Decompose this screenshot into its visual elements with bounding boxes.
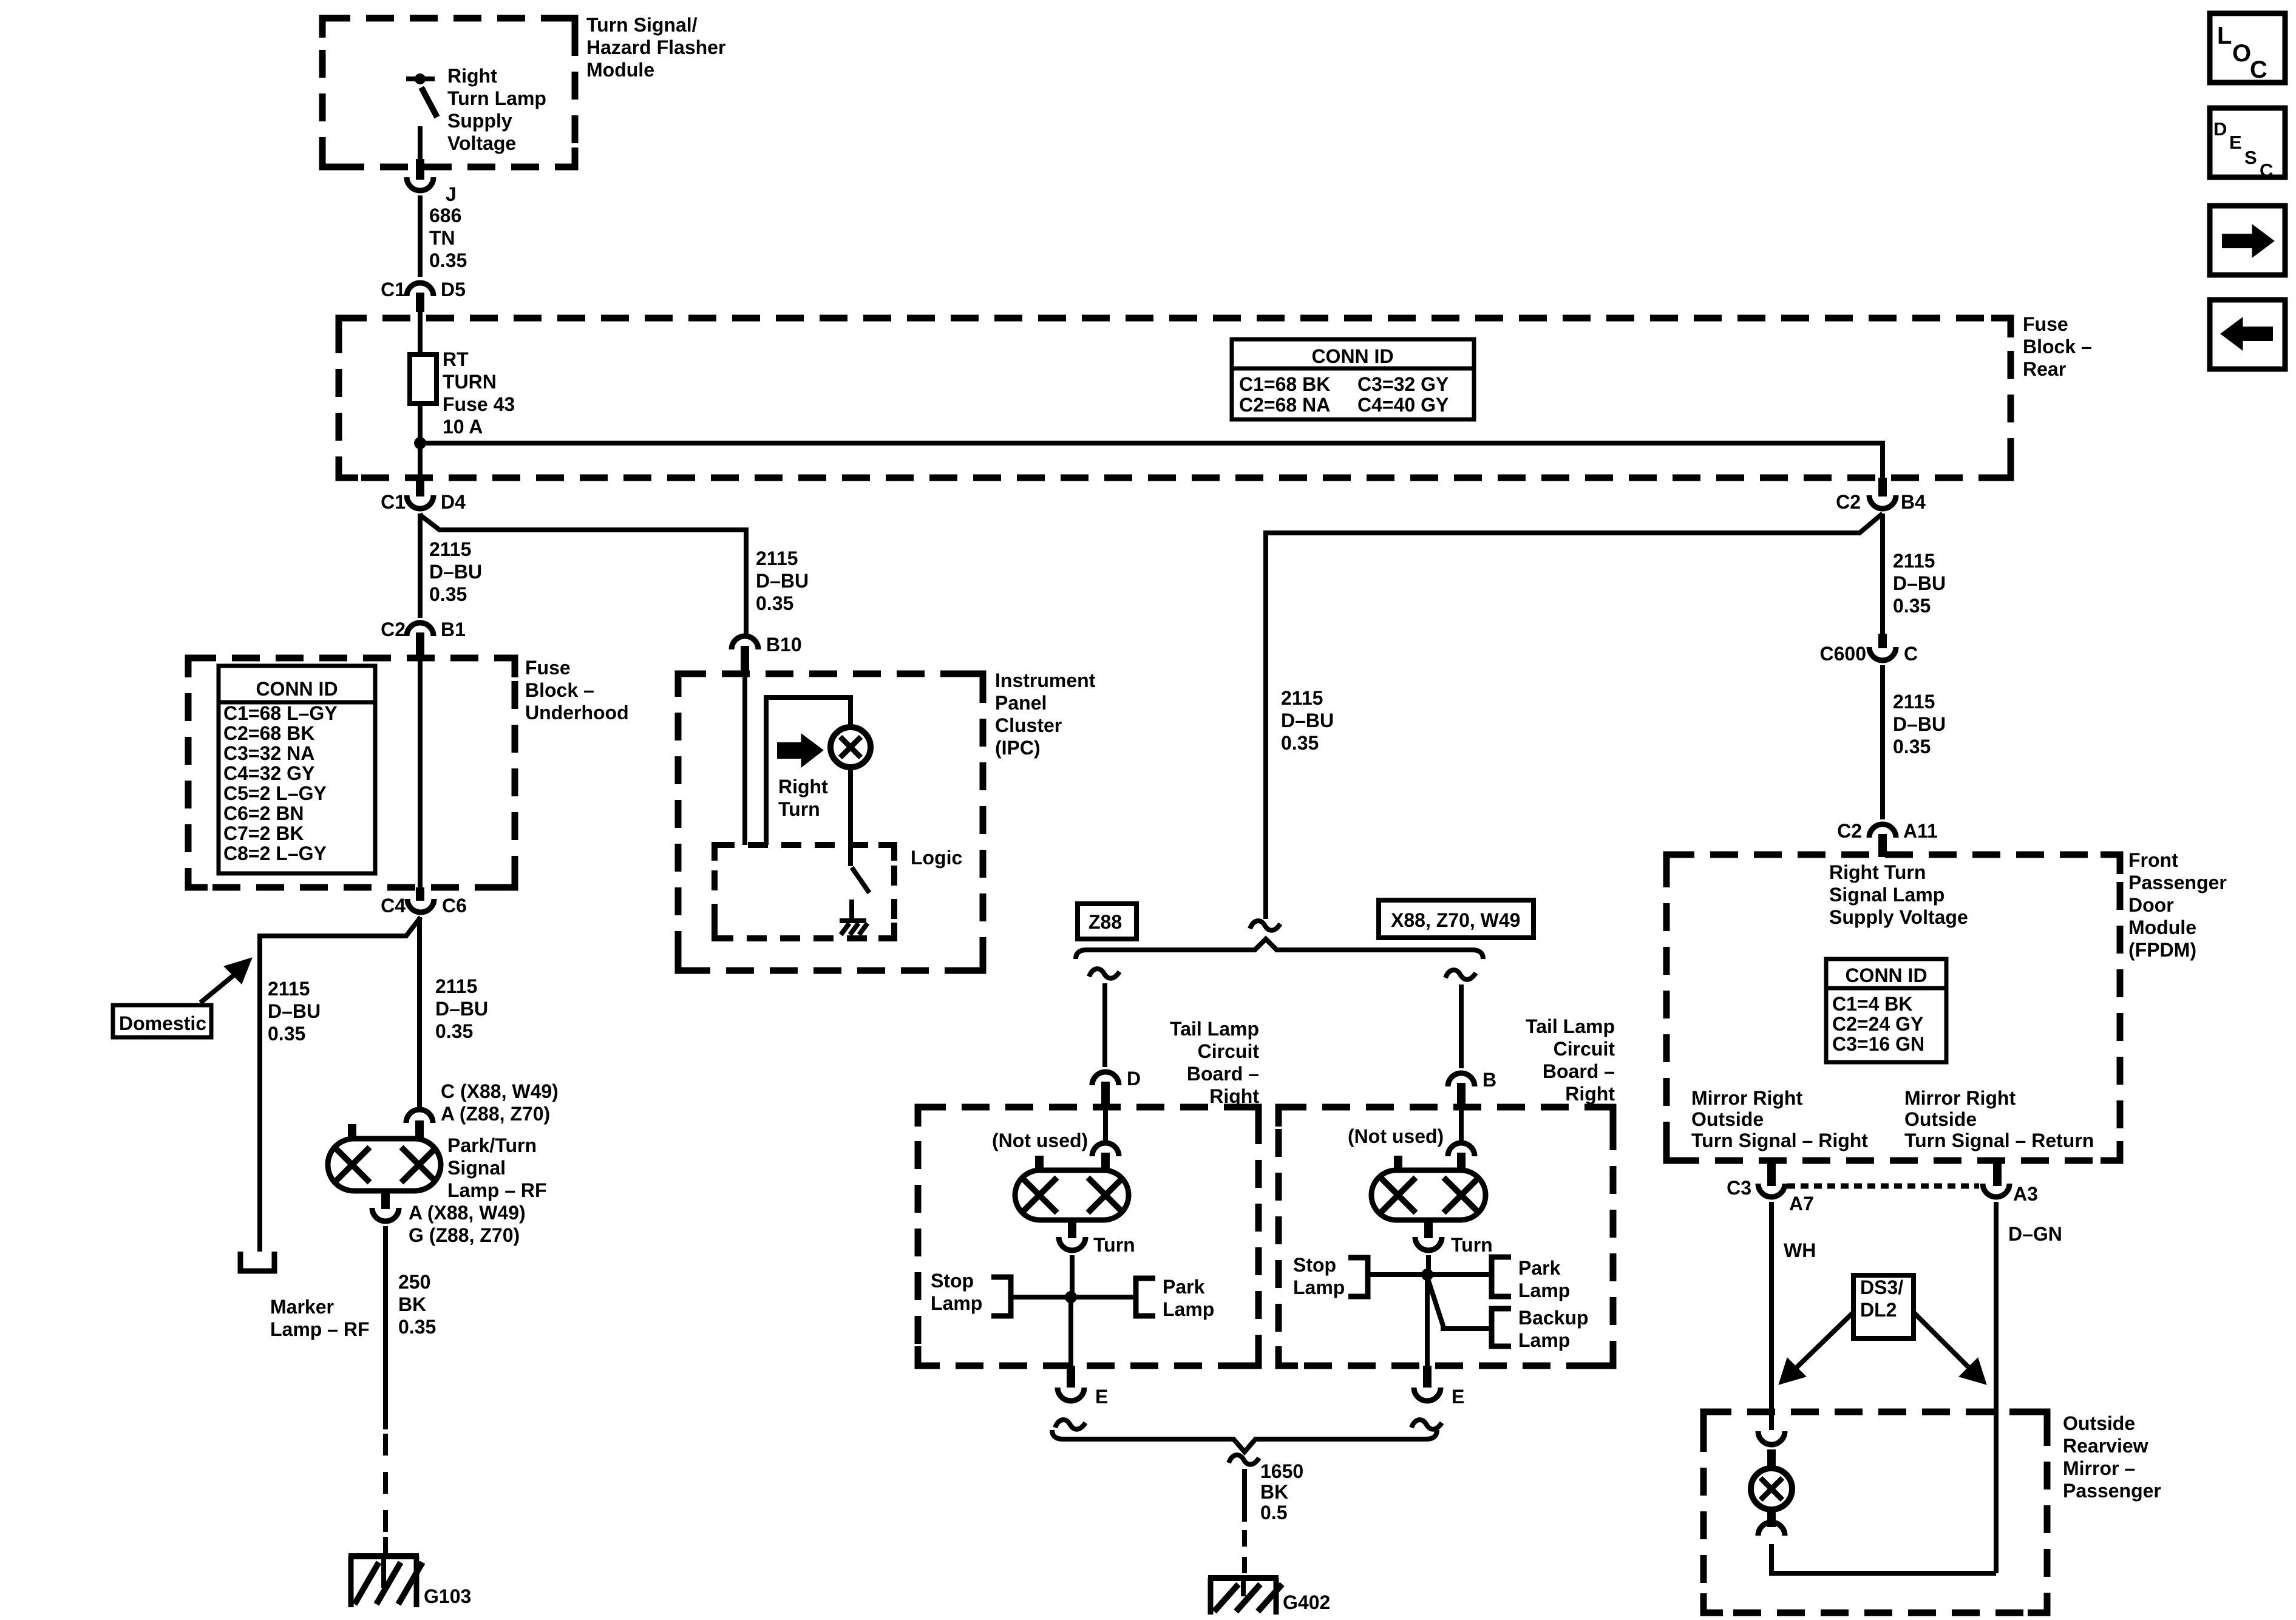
- svg-text:Hazard Flasher: Hazard Flasher: [586, 36, 725, 58]
- svg-text:C1: C1: [381, 491, 406, 513]
- option box: Z88: [1078, 904, 1136, 939]
- label: Instrument Panel Cluster (IPC): [995, 669, 1096, 759]
- label: 2115 D-BU 0.35 (middle): [1281, 687, 1334, 754]
- label: 2115 D-BU 0.35 (IPC branch wire): [756, 547, 809, 614]
- label: Right Turn (IPC): [778, 776, 828, 820]
- svg-text:L: L: [2217, 22, 2232, 49]
- lamp housing: Park/Turn Signal Lamp - RF: [328, 1124, 441, 1209]
- terminal bracket: Stop Lamp (2): [1348, 1258, 1368, 1296]
- label: pin A/G of park-turn lamp: [409, 1202, 526, 1246]
- module box: Tail Lamp Circuit Board (2): [1279, 1107, 1613, 1366]
- arrow to WH wire: [1779, 1312, 1853, 1384]
- svg-text:Right Turn: Right Turn: [1829, 861, 1926, 883]
- splice crimp below E (1): [1055, 1420, 1085, 1429]
- svg-text:0.35: 0.35: [429, 583, 467, 605]
- svg-text:0.35: 0.35: [1893, 595, 1931, 617]
- wire split to IPC branch: [420, 513, 746, 636]
- wire: bus inside Fuse Block Rear to right side: [420, 443, 1883, 478]
- svg-text:Turn: Turn: [1093, 1234, 1135, 1256]
- module box: Fuse Block Underhood: [188, 658, 515, 887]
- svg-text:C3: C3: [1727, 1177, 1751, 1199]
- module box: Turn Signal / Hazard Flasher Module: [322, 18, 575, 167]
- label: Backup Lamp: [1518, 1307, 1589, 1351]
- svg-text:D–BU: D–BU: [268, 1000, 321, 1022]
- icon box: previous arrow: [2210, 300, 2285, 369]
- svg-text:Passenger: Passenger: [2128, 872, 2227, 893]
- svg-text:Mirror Right: Mirror Right: [1904, 1087, 2016, 1109]
- junction node (2): [1421, 1269, 1433, 1281]
- connector B10 (into IPC): [732, 634, 802, 675]
- svg-text:2115: 2115: [1893, 550, 1935, 572]
- svg-text:0.35: 0.35: [1281, 732, 1319, 754]
- wire lamp to logic: [848, 767, 853, 866]
- svg-text:Block –: Block –: [525, 679, 594, 701]
- svg-text:C2=68 NA: C2=68 NA: [1239, 394, 1330, 416]
- connector A/G below lamp: [372, 1208, 399, 1221]
- svg-text:Lamp – RF: Lamp – RF: [447, 1179, 547, 1201]
- right-turn indicator arrow (IPC): [777, 734, 823, 767]
- connector A3 (FPDM to mirror return): [1983, 1161, 2038, 1205]
- svg-text:Park/Turn: Park/Turn: [447, 1134, 537, 1156]
- svg-text:D4: D4: [441, 491, 466, 513]
- svg-text:1650: 1650: [1260, 1460, 1303, 1482]
- svg-text:E: E: [1095, 1386, 1108, 1408]
- wire 2115 D-BU 0.35 (right lower): [1880, 665, 1885, 819]
- svg-text:C3=16 GN: C3=16 GN: [1832, 1033, 1924, 1055]
- label: wire 686 TN 0.35: [429, 205, 467, 271]
- ground symbol inside IPC logic: [840, 900, 868, 935]
- svg-text:Right: Right: [447, 65, 497, 87]
- svg-text:Turn Signal – Right: Turn Signal – Right: [1691, 1130, 1868, 1151]
- svg-text:(Not used): (Not used): [992, 1130, 1088, 1151]
- svg-text:Park: Park: [1163, 1276, 1205, 1298]
- svg-text:Outside: Outside: [2063, 1412, 2135, 1434]
- wire 2115 D-BU 0.35 (to tail lamp boards): [1266, 513, 1883, 919]
- svg-text:Tail Lamp: Tail Lamp: [1526, 1015, 1615, 1037]
- svg-text:B: B: [1483, 1069, 1496, 1091]
- svg-text:(IPC): (IPC): [995, 737, 1041, 759]
- svg-text:10 A: 10 A: [443, 416, 483, 438]
- label: Marker Lamp - RF: [270, 1296, 370, 1340]
- svg-text:D–BU: D–BU: [1893, 713, 1946, 735]
- svg-text:D–BU: D–BU: [1281, 710, 1334, 731]
- svg-text:DL2: DL2: [1860, 1299, 1897, 1321]
- svg-text:Stop: Stop: [1293, 1254, 1336, 1276]
- switch: Right Turn Lamp Supply Voltage (inside flasher module): [406, 73, 437, 160]
- wire from fuse to junction: [418, 404, 423, 443]
- svg-text:Front: Front: [2128, 849, 2178, 871]
- ground G402: [1208, 1578, 1330, 1615]
- svg-text:Module: Module: [586, 59, 654, 81]
- svg-text:O: O: [2232, 40, 2251, 67]
- svg-text:DS3/: DS3/: [1860, 1276, 1903, 1298]
- svg-text:A (Z88, Z70): A (Z88, Z70): [441, 1103, 550, 1125]
- svg-text:0.35: 0.35: [398, 1316, 436, 1338]
- connector C600/C: [1820, 634, 1918, 665]
- svg-text:Turn: Turn: [1451, 1234, 1493, 1256]
- svg-text:Board –: Board –: [1187, 1063, 1259, 1085]
- connector C2/A11 (into FPDM): [1837, 820, 1938, 857]
- svg-text:Z88: Z88: [1089, 911, 1122, 933]
- module box: Instrument Panel Cluster (IPC): [678, 674, 983, 971]
- svg-text:2115: 2115: [756, 547, 798, 569]
- wire into fuse: [418, 312, 423, 354]
- connector Turn (1): [1059, 1234, 1135, 1256]
- wire 686 TN 0.35: [418, 195, 423, 277]
- label: (Not used) (1): [992, 1130, 1088, 1151]
- junction node (1): [1065, 1291, 1077, 1303]
- svg-text:2115: 2115: [1281, 687, 1323, 709]
- svg-text:Supply: Supply: [447, 110, 512, 132]
- connector B (tail lamp circuit board right): [1448, 1069, 1496, 1108]
- svg-text:C2: C2: [1837, 820, 1862, 842]
- svg-text:0.35: 0.35: [268, 1023, 305, 1045]
- svg-text:C1=68 L–GY: C1=68 L–GY: [223, 702, 338, 724]
- fuse RT TURN Fuse 43 10 A: [410, 354, 436, 404]
- svg-text:D–BU: D–BU: [429, 561, 482, 583]
- wire 2115 D-BU 0.35 (to park/turn lamp): [417, 917, 422, 1110]
- label: 2115 D-BU 0.35 (main): [435, 975, 488, 1042]
- svg-text:B10: B10: [766, 634, 802, 656]
- connector D (tail lamp circuit board left): [1092, 1068, 1141, 1108]
- wire D-GN: [1994, 1202, 1999, 1573]
- arrow from Domestic callout: [200, 958, 252, 1003]
- svg-text:Board –: Board –: [1543, 1060, 1615, 1082]
- svg-text:Underhood: Underhood: [525, 702, 629, 724]
- wire junction to E (2): [1425, 1275, 1430, 1366]
- label: Stop Lamp (1): [931, 1270, 982, 1314]
- svg-text:BK: BK: [1260, 1481, 1288, 1503]
- wire junction to E (1): [1068, 1297, 1073, 1366]
- svg-text:C6: C6: [442, 895, 467, 917]
- mirror turn signal lamp: [1751, 1468, 1792, 1527]
- svg-text:(Not used): (Not used): [1348, 1125, 1444, 1147]
- svg-text:C4=40 GY: C4=40 GY: [1357, 394, 1449, 416]
- label: D-GN: [2008, 1223, 2062, 1245]
- svg-text:Lamp: Lamp: [1518, 1329, 1570, 1351]
- svg-text:Lamp: Lamp: [1293, 1276, 1345, 1298]
- svg-text:TURN: TURN: [443, 371, 497, 393]
- svg-text:RT: RT: [443, 348, 469, 370]
- label: Mirror Right Outside Turn Signal - Return: [1904, 1087, 2094, 1151]
- svg-text:D: D: [1127, 1068, 1141, 1090]
- svg-text:(FPDM): (FPDM): [2128, 939, 2196, 961]
- svg-text:Fuse 43: Fuse 43: [443, 393, 515, 415]
- wire to connector B: [1459, 985, 1464, 1068]
- svg-text:Module: Module: [2128, 917, 2196, 938]
- svg-text:Lamp: Lamp: [1163, 1298, 1214, 1320]
- svg-text:Fuse: Fuse: [2023, 313, 2068, 335]
- svg-text:Rearview: Rearview: [2063, 1435, 2148, 1457]
- splice crimp at 1650 BK: [1229, 1455, 1259, 1465]
- label: Logic: [911, 847, 962, 869]
- connector at bulb pin (1): [1092, 1143, 1119, 1171]
- svg-text:A7: A7: [1789, 1193, 1814, 1215]
- svg-text:Cluster: Cluster: [995, 714, 1062, 736]
- svg-text:C2: C2: [1836, 491, 1861, 513]
- svg-text:C1=4 BK: C1=4 BK: [1832, 993, 1913, 1015]
- connector C/A at Park/Turn Signal Lamp: [406, 1110, 433, 1140]
- label: 2115 D-BU 0.35 (left wire): [429, 538, 482, 605]
- dotted connector face line: [1787, 1184, 1979, 1189]
- wire loop to indicator lamp: [766, 697, 851, 845]
- label: 250 BK 0.35: [398, 1271, 436, 1338]
- svg-text:Voltage: Voltage: [447, 132, 516, 154]
- terminal bracket: Backup Lamp: [1492, 1309, 1511, 1346]
- svg-text:C: C: [2250, 56, 2267, 83]
- svg-text:Lamp: Lamp: [1518, 1279, 1570, 1301]
- svg-text:CONN ID: CONN ID: [1845, 964, 1927, 986]
- label: Mirror Right Outside Turn Signal - Right: [1691, 1087, 1868, 1151]
- svg-text:Supply Voltage: Supply Voltage: [1829, 906, 1968, 928]
- wire to backup lamp: [1427, 1277, 1492, 1329]
- wire WH: [1769, 1202, 1774, 1430]
- svg-text:Signal Lamp: Signal Lamp: [1829, 884, 1944, 906]
- wire B10 into logic: [742, 675, 747, 845]
- svg-text:C3=32 GY: C3=32 GY: [1357, 373, 1449, 395]
- svg-text:Circuit: Circuit: [1554, 1038, 1615, 1060]
- svg-text:Mirror –: Mirror –: [2063, 1457, 2135, 1479]
- label: WH: [1784, 1239, 1816, 1261]
- svg-text:Block –: Block –: [2023, 336, 2092, 358]
- svg-text:C: C: [1904, 643, 1918, 665]
- svg-text:E: E: [2229, 132, 2242, 153]
- svg-text:0.5: 0.5: [1260, 1502, 1287, 1523]
- svg-text:686: 686: [429, 205, 461, 226]
- connector at bulb pin (2): [1448, 1143, 1475, 1171]
- svg-text:0.35: 0.35: [435, 1020, 473, 1042]
- label: Fuse Block - Rear: [2023, 313, 2092, 380]
- label: Right Turn Lamp Supply Voltage: [447, 65, 546, 154]
- svg-text:Panel: Panel: [995, 692, 1047, 714]
- svg-text:Tail Lamp: Tail Lamp: [1170, 1018, 1259, 1040]
- callout box: DS3/DL2: [1853, 1275, 1914, 1338]
- label: Tail Lamp Circuit Board - Right (2): [1526, 1015, 1615, 1105]
- svg-text:Right: Right: [1209, 1085, 1259, 1107]
- svg-text:WH: WH: [1784, 1239, 1816, 1261]
- wire from junction down: [418, 443, 423, 478]
- svg-text:2115: 2115: [429, 538, 471, 560]
- connector out of mirror lamp: [1758, 1522, 1785, 1536]
- wire stop-park crossbar (1): [1011, 1295, 1135, 1300]
- wire stop-park crossbar (2): [1368, 1272, 1492, 1277]
- svg-text:A (X88, W49): A (X88, W49): [409, 1202, 526, 1224]
- svg-text:C3=32 NA: C3=32 NA: [223, 742, 314, 764]
- svg-text:Right: Right: [1565, 1083, 1615, 1105]
- svg-text:Park: Park: [1518, 1257, 1561, 1279]
- svg-text:Instrument: Instrument: [995, 669, 1096, 691]
- svg-text:C1: C1: [381, 279, 406, 300]
- icon box: DESC: [2210, 108, 2285, 181]
- svg-text:TN: TN: [429, 227, 455, 249]
- ground G103: [348, 1556, 471, 1607]
- label: Park Lamp (1): [1163, 1276, 1214, 1320]
- svg-text:Passenger: Passenger: [2063, 1480, 2161, 1502]
- label: 1650 BK 0.5: [1260, 1460, 1303, 1523]
- svg-text:CONN ID: CONN ID: [1311, 345, 1393, 367]
- label: (Not used) (2): [1348, 1125, 1444, 1147]
- connector E (2): [1414, 1366, 1464, 1408]
- svg-text:250: 250: [398, 1271, 430, 1293]
- svg-text:C2: C2: [381, 619, 406, 640]
- svg-text:D: D: [2213, 118, 2227, 140]
- wire D to bulb pin (1): [1103, 1108, 1108, 1140]
- wire 2115 D-BU 0.35 (left): [418, 513, 423, 618]
- svg-text:E: E: [1452, 1386, 1464, 1408]
- svg-text:Fuse: Fuse: [525, 657, 571, 679]
- svg-text:C5=2 L–GY: C5=2 L–GY: [223, 782, 327, 804]
- connector C1/D5 (into Fuse Block Rear): [381, 279, 466, 312]
- splice crimp above brace: [1250, 921, 1280, 930]
- svg-text:BK: BK: [398, 1293, 426, 1315]
- svg-text:G402: G402: [1283, 1591, 1330, 1613]
- svg-text:Domestic: Domestic: [119, 1012, 206, 1034]
- svg-text:D–BU: D–BU: [435, 998, 488, 1020]
- label: Fuse Block - Underhood: [525, 657, 629, 724]
- svg-text:A11: A11: [1903, 820, 1938, 842]
- bulb housing (tail lamp 1): [1015, 1156, 1129, 1238]
- wire 250 BK 0.35: [383, 1226, 388, 1556]
- svg-text:A3: A3: [2013, 1183, 2038, 1205]
- svg-text:C (X88, W49): C (X88, W49): [441, 1080, 559, 1102]
- wire through underhood block: [418, 659, 423, 887]
- svg-text:0.35: 0.35: [756, 592, 793, 614]
- svg-text:Stop: Stop: [931, 1270, 974, 1292]
- wire B to bulb pin (2): [1459, 1108, 1464, 1140]
- svg-text:B1: B1: [441, 619, 466, 640]
- svg-text:Turn Lamp: Turn Lamp: [447, 87, 546, 109]
- splice crimp below E (2): [1411, 1420, 1442, 1429]
- svg-text:C8=2 L–GY: C8=2 L–GY: [223, 842, 327, 864]
- label: Right Turn Signal Lamp Supply Voltage: [1829, 861, 1968, 928]
- svg-text:2115: 2115: [435, 975, 477, 997]
- svg-text:C600: C600: [1820, 643, 1867, 665]
- wire turn to junction (2): [1426, 1255, 1431, 1275]
- table CONN ID (Fuse Block Rear): [1232, 339, 1474, 419]
- switch inside IPC logic: [852, 867, 869, 893]
- svg-text:S: S: [2244, 147, 2257, 168]
- svg-text:Rear: Rear: [2023, 358, 2066, 380]
- connector Turn (2): [1415, 1234, 1493, 1256]
- wire turn to junction (1): [1070, 1255, 1075, 1297]
- icon box: LOC: [2210, 13, 2285, 83]
- svg-text:C2=24 GY: C2=24 GY: [1832, 1013, 1923, 1035]
- callout box: Domestic: [113, 1005, 211, 1037]
- wire mirror return: [1771, 1544, 1996, 1573]
- arrow to D-GN wire: [1914, 1312, 1986, 1384]
- splice crimp (right drop): [1445, 970, 1476, 980]
- svg-text:0.35: 0.35: [1893, 736, 1931, 757]
- label: RT TURN Fuse 43 10 A: [443, 348, 515, 438]
- svg-text:2115: 2115: [268, 978, 310, 1000]
- svg-text:Logic: Logic: [911, 847, 962, 869]
- connector into mirror lamp: [1758, 1431, 1785, 1470]
- connector C2/B4 (Fuse Block Rear right output): [1836, 478, 1926, 513]
- label: Park Lamp (2): [1518, 1257, 1570, 1301]
- table CONN ID (FPDM): [1826, 959, 1946, 1062]
- svg-text:D–BU: D–BU: [1893, 572, 1946, 594]
- connector C2/B1 (into Fuse Block Underhood): [381, 619, 466, 659]
- label: Stop Lamp (2): [1293, 1254, 1345, 1298]
- svg-text:C: C: [2260, 160, 2273, 181]
- svg-text:Signal: Signal: [447, 1157, 506, 1179]
- label: Outside Rearview Mirror - Passenger: [2063, 1412, 2161, 1502]
- svg-text:X88, Z70, W49: X88, Z70, W49: [1391, 909, 1520, 931]
- terminal bracket: Park Lamp (2): [1492, 1257, 1511, 1296]
- svg-text:Turn Signal – Return: Turn Signal – Return: [1904, 1130, 2094, 1151]
- wire 1650 BK 0.5: [1242, 1469, 1247, 1573]
- splice crimp (left drop): [1089, 969, 1119, 978]
- svg-text:Circuit: Circuit: [1198, 1040, 1260, 1062]
- svg-text:D5: D5: [441, 279, 466, 300]
- svg-text:Outside: Outside: [1691, 1108, 1764, 1130]
- svg-text:Outside: Outside: [1904, 1108, 1977, 1130]
- svg-text:2115: 2115: [1893, 691, 1935, 713]
- bulb housing (tail lamp 2): [1371, 1156, 1486, 1238]
- svg-text:Turn Signal/: Turn Signal/: [586, 14, 698, 36]
- svg-text:C6=2 BN: C6=2 BN: [223, 802, 304, 824]
- connector C3/A7 (FPDM to mirror): [1727, 1161, 1814, 1215]
- svg-text:C4=32 GY: C4=32 GY: [223, 762, 314, 784]
- junction node (fuse output): [414, 437, 426, 449]
- svg-text:Lamp – RF: Lamp – RF: [270, 1318, 370, 1340]
- svg-text:C2=68 BK: C2=68 BK: [223, 722, 314, 744]
- svg-text:Lamp: Lamp: [931, 1292, 982, 1314]
- wire to connector D: [1102, 983, 1107, 1067]
- label: Front Passenger Door Module (FPDM): [2128, 849, 2227, 961]
- terminal bracket: Park Lamp (1): [1136, 1278, 1155, 1316]
- svg-text:D–BU: D–BU: [756, 570, 809, 592]
- svg-text:Marker: Marker: [270, 1296, 334, 1318]
- terminal: Marker Lamp - RF: [240, 1252, 274, 1271]
- label: 2115 D-BU 0.35 (right upper): [1893, 550, 1946, 617]
- label: Turn Signal/Hazard Flasher Module: [586, 14, 725, 81]
- svg-text:CONN ID: CONN ID: [256, 678, 338, 700]
- svg-text:Right: Right: [778, 776, 828, 798]
- label: pin C/A of park-turn lamp: [441, 1080, 559, 1125]
- svg-text:C4: C4: [381, 895, 406, 917]
- svg-text:C7=2 BK: C7=2 BK: [223, 822, 304, 844]
- module box: Outside Rearview Mirror - Passenger: [1703, 1412, 2047, 1613]
- module box: Front Passenger Door Module (FPDM): [1666, 855, 2120, 1161]
- svg-text:Backup: Backup: [1518, 1307, 1589, 1329]
- module box: Tail Lamp Circuit Board (1): [918, 1107, 1258, 1366]
- svg-text:G103: G103: [424, 1585, 471, 1607]
- svg-text:Door: Door: [2128, 894, 2174, 916]
- brace over tail lamp drops: [1076, 939, 1483, 959]
- svg-text:C1=68 BK: C1=68 BK: [1239, 373, 1330, 395]
- label: Park/Turn Signal Lamp - RF: [447, 1134, 547, 1201]
- indicator lamp (IPC right turn): [830, 727, 871, 767]
- label: 2115 D-BU 0.35 (marker branch): [268, 978, 321, 1045]
- wire 2115 D-BU 0.35 (right upper): [1880, 513, 1885, 635]
- terminal bracket: Stop Lamp (1): [991, 1277, 1011, 1316]
- wire branch to Marker Lamp: [260, 917, 421, 1252]
- svg-text:D–GN: D–GN: [2008, 1223, 2062, 1245]
- svg-text:Mirror Right: Mirror Right: [1691, 1087, 1802, 1109]
- table CONN ID (Fuse Block Underhood): [219, 666, 375, 873]
- connector C4/C6 (Fuse Block Underhood output): [381, 887, 467, 917]
- svg-text:J: J: [446, 183, 457, 205]
- option box: X88, Z70, W49: [1379, 900, 1533, 938]
- connector C1/D4 (Fuse Block Rear left output): [381, 478, 466, 513]
- label: Tail Lamp Circuit Board - Right (1): [1170, 1018, 1259, 1107]
- icon box: next arrow: [2210, 206, 2285, 275]
- svg-text:0.35: 0.35: [429, 249, 467, 271]
- logic box (IPC): [715, 845, 894, 938]
- connector J (flasher module output): [407, 159, 457, 205]
- svg-text:B4: B4: [1901, 491, 1926, 513]
